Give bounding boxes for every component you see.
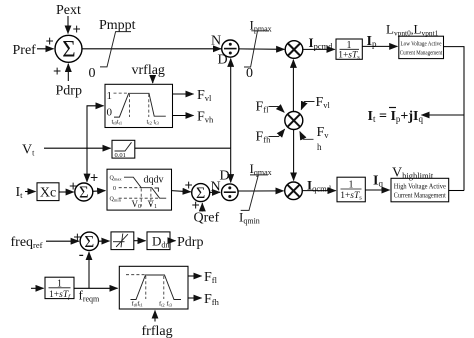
wire Vt branch up to vrflag block	[87, 106, 104, 148]
wire vrflag into block	[152, 76, 154, 84]
node Iqcmd label	[307, 178, 332, 194]
limiter slash Ipmax/0	[244, 18, 272, 82]
wire B1 to LV box	[362, 45, 397, 47]
svg-text:+: +	[46, 34, 54, 50]
node Pdrp output label	[177, 235, 203, 250]
wire HV box to right bus	[449, 190, 464, 192]
wire Xc to S2	[59, 179, 77, 195]
wire Pext into S1	[68, 16, 81, 38]
node Vt label	[22, 143, 35, 158]
svg-text:D: D	[218, 53, 228, 68]
svg-text:1+sTs: 1+sTs	[340, 191, 362, 202]
wire B2 to HV box	[366, 189, 390, 191]
svg-text:Qmax: Qmax	[110, 176, 123, 182]
svg-text:0.01: 0.01	[115, 152, 126, 159]
summing junction S3	[80, 232, 98, 251]
node freqm label	[79, 288, 101, 304]
wire It to Xc	[25, 191, 36, 193]
wire divider U4 to M2	[238, 190, 283, 192]
summing junction S4	[192, 184, 210, 203]
svg-text:dqdv: dqdv	[144, 175, 164, 186]
wire 0.01 to divider D bus	[135, 147, 231, 149]
block U11 frflag trapezoid	[119, 266, 188, 309]
node Fvh output label	[197, 110, 214, 125]
svg-text:0: 0	[113, 186, 116, 192]
wire Fvl output	[173, 93, 194, 95]
wire S4 to divider U4	[210, 180, 221, 195]
svg-text:tt0tt1: tt0tt1	[112, 119, 123, 126]
svg-text:+: +	[73, 22, 81, 38]
multiplier M3 middle	[285, 112, 303, 130]
wire frflag into block	[154, 311, 156, 322]
wire Vt branch down to S2	[87, 148, 98, 186]
node Ffl output label	[204, 270, 218, 285]
node Fvl output label	[197, 88, 212, 103]
svg-text:0: 0	[107, 107, 113, 119]
wire B5 to frflag block	[74, 287, 118, 289]
node Pref label	[13, 43, 37, 58]
block U9 rate limiter	[111, 232, 134, 250]
node Vhighlimit label	[392, 166, 434, 181]
svg-text:N: N	[211, 34, 221, 49]
wire Pref into S1	[37, 34, 54, 50]
block U2 Low Voltage Active Current Management	[399, 36, 444, 58]
node Ip label	[367, 34, 377, 49]
multiplier M1	[285, 41, 303, 59]
wire rate limiter to Ddn	[134, 240, 146, 242]
svg-text:Σ: Σ	[79, 183, 89, 202]
wire S3 to rate limiter	[99, 240, 110, 242]
svg-text:Qmin: Qmin	[110, 197, 122, 203]
wire Qref into S4	[192, 198, 203, 214]
wire Ffh output	[188, 297, 202, 299]
svg-text:Xc: Xc	[40, 186, 56, 201]
node Ffh label and lead	[256, 129, 285, 144]
svg-text:vrflag: vrflag	[132, 63, 165, 78]
node Fvh label and lead	[300, 125, 329, 152]
wire D1 to multiplier M1	[239, 48, 284, 50]
node Iq label	[373, 174, 383, 189]
svg-text:ft0ft1: ft0ft1	[132, 301, 143, 308]
node Ffl label and lead	[256, 100, 285, 115]
limiter slash Iqmax/Iqmin	[239, 161, 272, 226]
wire freqm branch up into S3	[79, 247, 89, 289]
svg-text:Current Management: Current Management	[400, 50, 443, 57]
node Ipcmd label	[309, 35, 334, 51]
svg-text:High Voltage Active: High Voltage Active	[394, 182, 446, 190]
wire Vt to 0.01 block	[44, 147, 111, 149]
node Pext label	[56, 3, 81, 18]
wire bus down to divider U4 D input	[230, 148, 232, 182]
node It equation	[368, 108, 424, 125]
svg-text:Pmppt: Pmppt	[99, 18, 136, 33]
block U8 dqdv	[107, 169, 172, 210]
wire M3 up to M1	[292, 60, 294, 112]
node Fvl label and lead	[301, 95, 330, 110]
wire M3 down to M2	[293, 130, 295, 181]
svg-text:1+sTf: 1+sTf	[49, 290, 71, 301]
wire bus to It equation	[422, 114, 465, 116]
svg-text:tt2 tt3: tt2 tt3	[147, 119, 160, 126]
summing junction S1	[55, 35, 82, 62]
wire M1 to lag block B1	[303, 48, 335, 50]
wire M2 to B2	[303, 190, 336, 192]
svg-text:+: +	[192, 198, 200, 214]
node Lvpnt0,Lvpnt1 label	[386, 22, 439, 38]
svg-text:frflag: frflag	[142, 324, 173, 338]
block U6 max 0.01	[112, 140, 135, 159]
svg-text:Low Voltage Active: Low Voltage Active	[401, 41, 442, 48]
node freqref label	[11, 235, 43, 250]
svg-text:+: +	[90, 171, 98, 187]
wire dqdv to S4	[172, 178, 193, 194]
svg-text:1: 1	[107, 90, 113, 102]
node Pdrp label	[56, 84, 82, 99]
svg-text:0: 0	[246, 66, 253, 81]
block B1 1/(1+sTs)	[336, 39, 362, 61]
svg-text:D: D	[220, 169, 230, 184]
svg-text:+: +	[53, 64, 61, 80]
block U10 Ddn	[147, 232, 170, 250]
divider U1	[211, 34, 239, 68]
wire freqref to S3	[46, 230, 81, 246]
block U7 Xc	[37, 183, 59, 201]
wire LV box to right bus	[444, 47, 465, 191]
svg-text:Σ: Σ	[84, 232, 94, 251]
svg-text:ft2 ft3: ft2 ft3	[159, 301, 173, 308]
svg-text:Pdrp: Pdrp	[56, 84, 82, 99]
svg-text:-: -	[79, 247, 84, 263]
summing junction S2	[75, 183, 93, 202]
node Qref label	[194, 211, 220, 226]
wire Ffl output	[188, 275, 202, 277]
svg-text:It = Ip+jIq: It = Ip+jIq	[368, 109, 424, 124]
svg-text:h: h	[317, 142, 322, 152]
limiter slash Pmppt/0	[89, 18, 136, 81]
svg-text:Current Management: Current Management	[394, 191, 446, 199]
wire input to lag block B5	[31, 287, 44, 289]
wire S2 to dqdv block	[93, 190, 106, 193]
wire Fvh output	[173, 115, 194, 117]
block B5 1/(1+sTf)	[45, 277, 74, 300]
block U3 High Voltage Active Current Management	[391, 178, 449, 202]
node Ffh output label	[204, 292, 220, 307]
svg-text:1+sTs: 1+sTs	[338, 51, 360, 62]
svg-text:Pref: Pref	[13, 43, 37, 58]
block U5 vrflag trapezoid	[105, 84, 173, 127]
svg-text:Pdrp: Pdrp	[177, 235, 203, 250]
svg-text:Σ: Σ	[62, 37, 75, 62]
node frflag label	[142, 324, 173, 338]
wire bus up to divider U1 D input	[230, 59, 232, 149]
svg-text:0: 0	[89, 66, 96, 81]
wire Ddn to Pdrp	[170, 240, 176, 242]
wire Pdrp into S1	[53, 64, 68, 81]
node It input label	[16, 185, 24, 200]
multiplier M2	[285, 182, 303, 200]
block B2 1/(1+sTs)	[337, 177, 365, 202]
node vrflag label	[132, 63, 165, 78]
svg-text:Pext: Pext	[56, 3, 81, 18]
divider U4	[220, 169, 239, 201]
wire S1 to divider D1	[82, 48, 221, 50]
